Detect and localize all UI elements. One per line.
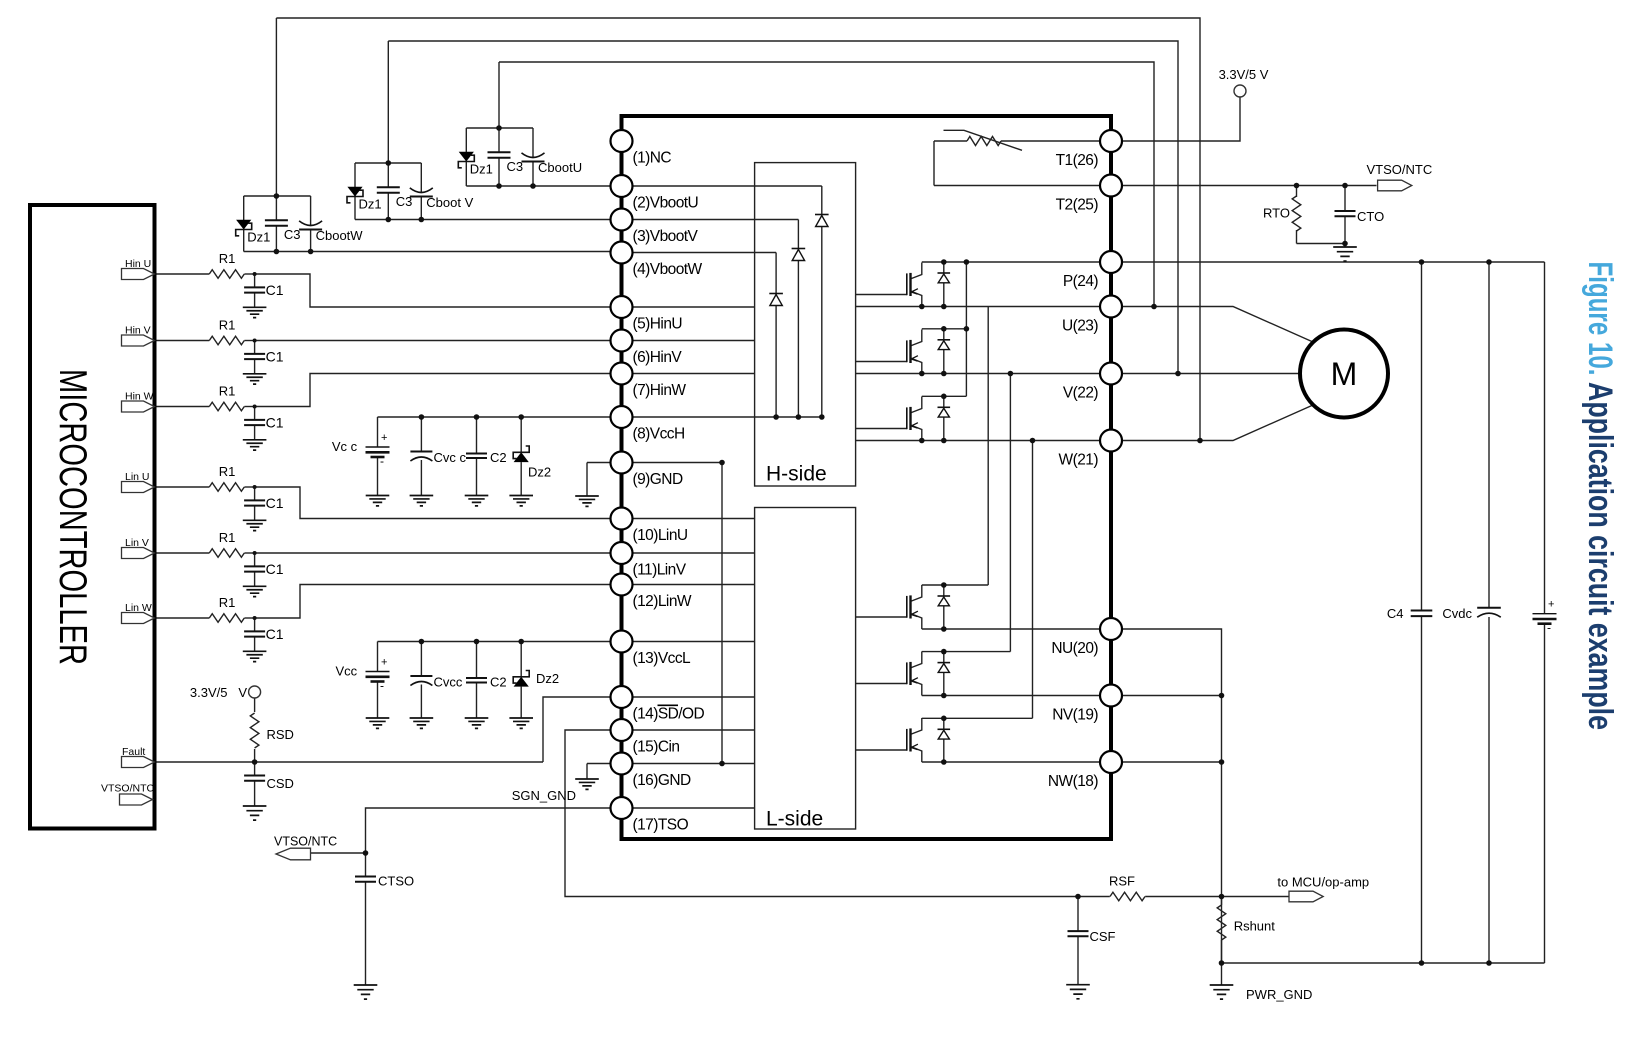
svg-text:CbootW: CbootW	[316, 228, 364, 243]
svg-text:C1: C1	[266, 282, 284, 298]
svg-text:R1: R1	[219, 530, 236, 545]
svg-text:to MCU/op-amp: to MCU/op-amp	[1277, 874, 1369, 889]
svg-text:(12)LinW: (12)LinW	[633, 593, 692, 610]
svg-text:RTO: RTO	[1263, 206, 1290, 221]
svg-text:R1: R1	[219, 464, 236, 479]
svg-text:NU(20): NU(20)	[1051, 640, 1098, 657]
svg-text:Figure 10.: Figure 10.	[1581, 262, 1619, 376]
svg-text:R1: R1	[219, 318, 236, 333]
svg-text:-: -	[1547, 621, 1551, 635]
svg-text:C3: C3	[284, 227, 301, 242]
svg-text:Lin W: Lin W	[125, 602, 152, 614]
svg-text:T1(26): T1(26)	[1056, 152, 1099, 169]
svg-text:Hin V: Hin V	[125, 324, 151, 336]
svg-text:R1: R1	[219, 384, 236, 399]
svg-text:C1: C1	[266, 561, 284, 577]
svg-text:C1: C1	[266, 626, 284, 642]
svg-text:Cboot V: Cboot V	[426, 195, 473, 210]
svg-text:Hin W: Hin W	[125, 390, 154, 402]
svg-text:VTSO/NTC: VTSO/NTC	[1367, 162, 1433, 177]
svg-text:(13)VccL: (13)VccL	[633, 650, 692, 667]
svg-text:VTSO/NTC: VTSO/NTC	[101, 783, 155, 795]
svg-text:(10)LinU: (10)LinU	[633, 527, 688, 544]
svg-text:Dz1: Dz1	[247, 230, 270, 245]
svg-text:Dz1: Dz1	[470, 162, 493, 177]
svg-text:P(24): P(24)	[1063, 273, 1099, 290]
svg-text:C1: C1	[266, 415, 284, 431]
svg-text:PWR_GND: PWR_GND	[1246, 987, 1312, 1002]
svg-text:Lin V: Lin V	[125, 537, 149, 549]
svg-text:Cvcc: Cvcc	[434, 675, 463, 690]
svg-text:3.3V/5 V: 3.3V/5 V	[1219, 67, 1269, 82]
svg-text:(7)HinW: (7)HinW	[633, 382, 687, 399]
svg-text:R1: R1	[219, 595, 236, 610]
svg-text:+: +	[381, 657, 387, 669]
svg-text:(14)SD/OD: (14)SD/OD	[633, 706, 705, 723]
svg-text:Vcc: Vcc	[336, 664, 358, 679]
svg-text:MICROCONTROLLER: MICROCONTROLLER	[51, 369, 94, 665]
svg-text:W(21): W(21)	[1059, 452, 1099, 469]
svg-text:Hin U: Hin U	[125, 258, 151, 270]
svg-text:V(22): V(22)	[1063, 385, 1099, 402]
svg-text:Fault: Fault	[122, 746, 145, 758]
svg-text:(9)GND: (9)GND	[633, 471, 683, 488]
svg-text:(3)VbootV: (3)VbootV	[633, 228, 699, 245]
svg-text:(8)VccH: (8)VccH	[633, 426, 685, 443]
svg-text:Dz1: Dz1	[359, 197, 382, 212]
svg-text:CSF: CSF	[1090, 929, 1116, 944]
svg-text:C1: C1	[266, 495, 284, 511]
svg-text:(15)Cin: (15)Cin	[633, 739, 680, 756]
svg-text:Cvc c: Cvc c	[434, 450, 467, 465]
svg-text:Dz2: Dz2	[536, 671, 559, 686]
svg-text:-: -	[380, 679, 384, 693]
svg-text:CTO: CTO	[1357, 209, 1384, 224]
svg-text:Rshunt: Rshunt	[1234, 919, 1276, 934]
svg-text:M: M	[1331, 356, 1358, 392]
svg-text:U(23): U(23)	[1062, 318, 1098, 335]
svg-text:(16)GND: (16)GND	[633, 772, 692, 789]
svg-text:T2(25): T2(25)	[1056, 197, 1099, 214]
svg-text:R1: R1	[219, 251, 236, 266]
svg-text:+: +	[381, 432, 387, 444]
svg-text:CTSO: CTSO	[378, 874, 414, 889]
svg-text:C2: C2	[490, 450, 507, 465]
svg-text:C3: C3	[396, 194, 413, 209]
svg-text:CSD: CSD	[267, 776, 294, 791]
svg-text:L-side: L-side	[766, 808, 823, 831]
svg-text:(2)VbootU: (2)VbootU	[633, 195, 699, 212]
svg-text:NV(19): NV(19)	[1052, 707, 1098, 724]
svg-text:(5)HinU: (5)HinU	[633, 316, 683, 333]
svg-text:NW(18): NW(18)	[1048, 773, 1098, 790]
svg-text:C4: C4	[1387, 606, 1404, 621]
svg-text:3.3V/5 V: 3.3V/5 V	[190, 685, 247, 700]
svg-text:(11)LinV: (11)LinV	[633, 562, 687, 579]
svg-text:RSD: RSD	[267, 727, 294, 742]
svg-text:(6)HinV: (6)HinV	[633, 349, 683, 366]
svg-text:Cvdc: Cvdc	[1442, 606, 1472, 621]
svg-text:H-side: H-side	[766, 463, 827, 486]
svg-text:CbootU: CbootU	[538, 160, 582, 175]
svg-text:C1: C1	[266, 349, 284, 365]
svg-text:C2: C2	[490, 675, 507, 690]
svg-text:Dz2: Dz2	[528, 464, 551, 479]
svg-text:SGN_GND: SGN_GND	[512, 788, 576, 803]
svg-text:VTSO/NTC: VTSO/NTC	[274, 835, 337, 849]
svg-text:Vc c: Vc c	[332, 439, 358, 454]
svg-text:+: +	[1548, 599, 1554, 611]
svg-text:-: -	[380, 454, 384, 468]
svg-text:(17)TSO: (17)TSO	[633, 817, 689, 834]
svg-text:(1)NC: (1)NC	[633, 150, 672, 167]
svg-text:RSF: RSF	[1109, 873, 1135, 888]
svg-text:Lin U: Lin U	[125, 471, 150, 483]
svg-text:(4)VbootW: (4)VbootW	[633, 261, 703, 278]
svg-text:Application circuit example: Application circuit example	[1581, 382, 1619, 730]
svg-text:C3: C3	[507, 159, 524, 174]
